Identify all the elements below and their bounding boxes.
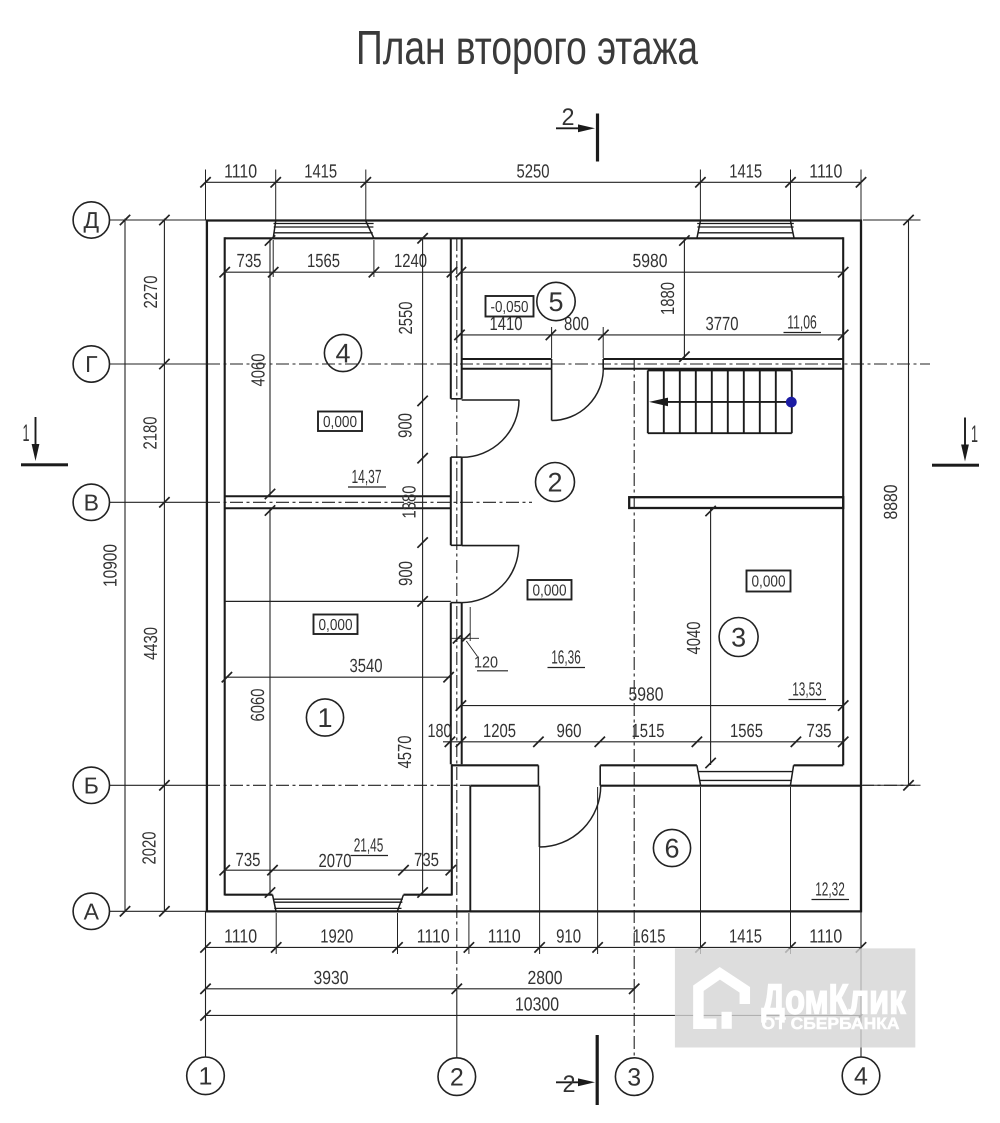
- left dimension line 10900: [124, 219, 126, 913]
- svg-text:5: 5: [548, 287, 563, 317]
- outer wall: right, inner line: [842, 237, 844, 765]
- svg-text:735: 735: [807, 721, 832, 742]
- room 1 right wall below bottom wall: [451, 764, 453, 895]
- axis circle 4: [842, 1057, 880, 1095]
- svg-text:4: 4: [335, 339, 350, 369]
- room number 6: [653, 829, 690, 866]
- interior wall axis В right part: outlined bar: [629, 497, 843, 508]
- svg-text:2: 2: [450, 1063, 464, 1091]
- svg-text:5980: 5980: [629, 685, 664, 706]
- interior wall axis2: jamb caps: [451, 398, 462, 400]
- svg-text:2: 2: [562, 104, 575, 131]
- axis circle Д: [73, 202, 109, 238]
- outer wall: bottom outer line full width: [206, 910, 862, 912]
- svg-text:21,45: 21,45: [354, 836, 384, 857]
- svg-text:3: 3: [627, 1063, 641, 1091]
- svg-text:2180: 2180: [141, 417, 162, 450]
- svg-text:1110: 1110: [488, 926, 521, 947]
- outer wall: bottom of room 1, inner line (window gap): [225, 894, 273, 896]
- axis line Б dash-dot left part: [207, 784, 470, 786]
- room number 2: [536, 463, 575, 502]
- axis line Г connector: [110, 363, 208, 365]
- svg-text:Б: Б: [84, 772, 99, 798]
- svg-text:-0,050: -0,050: [491, 299, 529, 316]
- bottom dimension row 1: [206, 946, 862, 948]
- extension line: [860, 170, 862, 221]
- axis circle 3: [615, 1058, 653, 1096]
- svg-text:1615: 1615: [633, 926, 666, 947]
- door D3 swing arc: [462, 400, 519, 457]
- axis circle Г: [73, 346, 109, 382]
- staircase: [648, 370, 792, 433]
- svg-text:1: 1: [23, 420, 30, 447]
- extension line: [468, 913, 470, 954]
- elevation mark room 3: 0,000: [747, 571, 791, 592]
- dimension: 1880 stairwell: [683, 238, 685, 359]
- svg-text:4430: 4430: [141, 627, 162, 660]
- svg-text:6: 6: [664, 834, 679, 864]
- window W1 top-left, 1415/1565: [273, 221, 276, 238]
- extension line through terrace: [597, 787, 599, 954]
- svg-text:А: А: [84, 898, 100, 924]
- dimension: 3540: [225, 676, 451, 678]
- stair direction arrow: [655, 401, 792, 403]
- svg-text:2070: 2070: [319, 851, 352, 872]
- svg-text:2: 2: [547, 468, 562, 498]
- axis line D (row Д) connector: [110, 219, 207, 221]
- svg-text:0,000: 0,000: [533, 582, 567, 599]
- elevation mark room 4: 0,000: [318, 412, 362, 432]
- door D4 swing arc: [462, 546, 519, 603]
- section mark 1 left: [21, 463, 68, 466]
- svg-text:1205: 1205: [483, 721, 516, 742]
- dimension row: 735/1565/1240: [225, 271, 452, 273]
- svg-text:8880: 8880: [881, 485, 902, 520]
- svg-text:0,000: 0,000: [319, 617, 353, 634]
- dimension row: 5980 top: [461, 271, 843, 273]
- svg-text:900: 900: [396, 561, 417, 586]
- axis circle 1: [187, 1057, 225, 1095]
- dimension: 5980 bottom: [461, 705, 843, 707]
- svg-text:1565: 1565: [730, 721, 763, 742]
- svg-text:1415: 1415: [729, 162, 762, 183]
- svg-text:735: 735: [237, 251, 262, 272]
- svg-text:4040: 4040: [684, 622, 705, 655]
- right dimension: 8880: [908, 220, 910, 785]
- svg-text:1110: 1110: [417, 926, 450, 947]
- svg-text:3770: 3770: [706, 314, 739, 335]
- svg-text:16,36: 16,36: [551, 648, 581, 669]
- dimension row above terrace: [443, 741, 843, 743]
- svg-text:3930: 3930: [314, 968, 349, 989]
- svg-text:1: 1: [317, 703, 332, 733]
- section mark 1 right: [932, 464, 979, 467]
- bottom wall of rooms 2-3: top line with door+window gaps: [452, 764, 539, 766]
- svg-text:1380: 1380: [400, 486, 421, 519]
- svg-text:1920: 1920: [320, 926, 353, 947]
- svg-text:13,53: 13,53: [792, 680, 822, 701]
- extension line: [275, 913, 277, 954]
- svg-text:960: 960: [557, 721, 582, 742]
- door D4 in axis-2 wall (room 1 to room 2), leaf: [462, 545, 520, 547]
- door D2 swing arc: [552, 369, 604, 421]
- outer wall: left, inner line: [224, 237, 226, 895]
- extension line through terrace: [539, 787, 541, 954]
- watermark house logo: [698, 973, 744, 1023]
- door jamb caps in bottom wall: [537, 765, 539, 785]
- terrace room 6: left wall: [469, 786, 471, 912]
- door D3 in axis-2 wall (room 4 to room 2), leaf: [462, 399, 520, 401]
- svg-text:1110: 1110: [224, 162, 257, 183]
- axis line 4 extension: [860, 912, 862, 1058]
- svg-text:3: 3: [731, 623, 746, 653]
- bottom wall of rooms 2-3: bottom line (door gap): [470, 785, 538, 787]
- extension line through terrace: [700, 787, 702, 954]
- outer wall: right, outer line: [860, 220, 862, 913]
- dimension: 4040 room 3: [710, 509, 712, 765]
- extension line through terrace: [790, 787, 792, 954]
- outer wall: top, outer line: [206, 219, 862, 221]
- axis line 2 dash-dot in wall: [456, 238, 458, 990]
- axis line Б dash-dot right margin: [861, 784, 915, 786]
- svg-text:0,000: 0,000: [752, 574, 786, 591]
- svg-text:10900: 10900: [101, 544, 122, 587]
- axis circle В: [73, 484, 109, 520]
- dimension: 120 wall stub: [469, 607, 471, 641]
- bottom dimension row 3: 10300: [206, 1014, 862, 1016]
- axis line 3 lower extension: [633, 990, 635, 1058]
- door D1 to terrace, leaf: [538, 786, 540, 847]
- svg-text:1515: 1515: [632, 721, 665, 742]
- watermark DomClick box: [675, 948, 915, 1047]
- svg-text:735: 735: [236, 850, 261, 871]
- svg-text:1880: 1880: [658, 282, 679, 315]
- elevation mark room 1: 0,000: [314, 615, 358, 635]
- window W4 terrace wall, 1415/1565: [697, 765, 701, 785]
- top dimension row: [206, 181, 862, 183]
- axis circle 2: [438, 1058, 476, 1096]
- svg-text:11,06: 11,06: [787, 313, 817, 334]
- extension line: [397, 913, 399, 954]
- extension line: [365, 170, 367, 221]
- axis line В connector: [110, 501, 208, 503]
- svg-text:12,32: 12,32: [815, 880, 845, 901]
- extension line: [790, 170, 792, 221]
- room number 3: [719, 618, 758, 657]
- axis circle А: [73, 893, 109, 929]
- svg-text:В: В: [84, 489, 99, 515]
- room number 5: [537, 282, 575, 320]
- extension line: [699, 170, 701, 221]
- axis line В dash-dot: [207, 501, 532, 503]
- svg-text:2: 2: [563, 1071, 576, 1098]
- door D1 swing arc: [539, 786, 600, 847]
- extension line: [205, 170, 207, 221]
- svg-text:Г: Г: [85, 351, 98, 377]
- interior dimension line x=270: 4060/6060: [269, 238, 271, 496]
- outer wall: top, inner line: [225, 237, 844, 239]
- thin line across room 1: [225, 600, 451, 602]
- svg-text:План второго этажа: План второго этажа: [356, 22, 698, 75]
- window W2 top-right, 1415/1565: [697, 221, 701, 238]
- interior dimension line x=422.6: 2550/900/1380/900/4570: [422, 238, 424, 894]
- interior wall on axis В left part: top+bottom lines: [225, 495, 451, 497]
- dimension row: 735/2070/735: [225, 869, 451, 871]
- svg-text:5980: 5980: [633, 251, 668, 272]
- svg-text:1: 1: [199, 1063, 213, 1091]
- dimension row: 1410/800/3770: [460, 334, 844, 336]
- svg-text:ОТ СБЕРБАНКА: ОТ СБЕРБАНКА: [762, 1015, 900, 1033]
- outer wall: left, outer line: [206, 220, 208, 913]
- axis circle Б: [73, 767, 109, 803]
- axis line 2 lower extension: [456, 990, 458, 1058]
- svg-text:6060: 6060: [248, 689, 269, 722]
- section mark 2 bottom: [596, 1035, 599, 1105]
- svg-text:1415: 1415: [729, 926, 762, 947]
- room number 1: [306, 699, 343, 736]
- svg-text:900: 900: [396, 413, 417, 438]
- elevation mark room 5: -0,050: [486, 296, 534, 317]
- extension line: [275, 170, 277, 221]
- svg-text:10300: 10300: [515, 994, 559, 1015]
- interior wall on axis Г: bottom line (door gap): [462, 368, 552, 370]
- svg-text:1415: 1415: [304, 162, 337, 183]
- svg-text:4570: 4570: [395, 736, 416, 769]
- svg-text:2270: 2270: [141, 276, 162, 309]
- svg-text:910: 910: [556, 926, 581, 947]
- svg-text:2550: 2550: [396, 302, 417, 335]
- svg-text:2020: 2020: [140, 832, 161, 865]
- svg-text:14,37: 14,37: [352, 467, 382, 488]
- svg-text:5250: 5250: [517, 162, 550, 183]
- svg-text:1110: 1110: [809, 926, 842, 947]
- bottom dimension row 2: 3930/2800: [206, 988, 635, 990]
- elevation mark room 2: 0,000: [528, 580, 572, 600]
- svg-text:180: 180: [428, 721, 452, 742]
- interior wall on axis 2: right face (door gaps): [461, 238, 463, 398]
- svg-text:Д: Д: [84, 207, 100, 233]
- door D2 in wall Г (room 5 to room 2), leaf: [551, 369, 553, 421]
- svg-text:1110: 1110: [224, 926, 257, 947]
- wall Г jamb caps: [551, 359, 553, 369]
- axis line Г dash-dot: [207, 363, 930, 365]
- stair start blue dot: [786, 397, 797, 408]
- svg-text:4: 4: [854, 1063, 868, 1091]
- interior wall on axis Г: top line (door gap): [462, 358, 552, 360]
- left dimension line 2270/2180/4430/2020: [163, 219, 165, 913]
- room number 4: [324, 334, 361, 371]
- svg-text:1: 1: [971, 421, 978, 448]
- axis line Б connector: [110, 784, 208, 786]
- svg-text:0,000: 0,000: [323, 414, 357, 431]
- svg-text:2800: 2800: [528, 968, 563, 989]
- axis line 3 dash-dot: [633, 358, 635, 990]
- svg-text:735: 735: [414, 850, 439, 871]
- interior wall on axis 2: left face (door gaps): [450, 238, 452, 398]
- svg-text:4060: 4060: [249, 354, 270, 387]
- svg-text:1240: 1240: [394, 251, 427, 272]
- axis line А connector: [110, 910, 207, 912]
- svg-text:1110: 1110: [809, 162, 842, 183]
- svg-text:120: 120: [474, 655, 498, 672]
- svg-text:1565: 1565: [307, 251, 340, 272]
- section mark 2 top: [596, 114, 599, 162]
- axis line 1 extension: [205, 912, 207, 1058]
- svg-text:3540: 3540: [350, 656, 383, 677]
- window W3 bottom-left, 1920/2070: [273, 895, 276, 911]
